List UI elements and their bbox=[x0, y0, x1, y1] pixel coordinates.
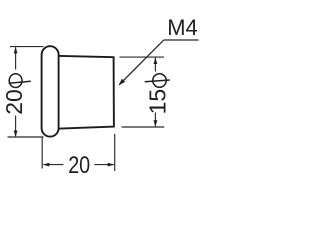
dim 20 extension line right bbox=[114, 134, 116, 171]
dim 20phi extension line top bbox=[10, 46, 44, 48]
dim 15phi text phi stem bbox=[145, 80, 170, 82]
dim 20phi text phi stem bbox=[9, 81, 31, 83]
dim 20 dimension line right segment bbox=[95, 164, 114, 166]
dim 15phi dimension line upper segment bbox=[154, 58, 156, 72]
svg-text:M4: M4 bbox=[167, 15, 198, 40]
dim 15phi dimension line lower segment bbox=[154, 113, 156, 127]
dim 15phi arrowhead up bbox=[154, 58, 158, 65]
label M4 leader underline bbox=[164, 39, 199, 41]
svg-text:20: 20 bbox=[1, 89, 27, 115]
dim 20phi arrowhead down bbox=[14, 131, 18, 138]
dim 15phi extension line bottom bbox=[122, 126, 165, 128]
dim 20phi arrowhead up bbox=[14, 47, 18, 54]
label M4 leader arrowhead bbox=[119, 79, 126, 86]
dim 15phi text phi bowl bbox=[153, 74, 166, 88]
dim 20 dimension line left segment bbox=[44, 164, 64, 166]
dim 20 arrowhead right bbox=[108, 163, 115, 167]
label M4 leader diagonal bbox=[119, 40, 163, 84]
svg-text:15: 15 bbox=[145, 89, 171, 115]
dim 20 arrowhead left bbox=[43, 163, 50, 167]
dim 20phi extension line bottom bbox=[8, 136, 44, 138]
dim 20phi text phi bowl bbox=[9, 74, 22, 88]
knob flange (capsule head) bbox=[42, 46, 59, 136]
svg-text:20: 20 bbox=[68, 152, 90, 179]
dim 15phi extension line top bbox=[120, 56, 165, 58]
dim 20phi dimension line upper segment bbox=[15, 47, 17, 69]
dim 20 extension line left bbox=[41, 137, 43, 169]
knob body (tapered shank) bbox=[50, 56, 114, 129]
dim 20phi dimension line lower segment bbox=[15, 116, 17, 137]
dim 15phi arrowhead down bbox=[154, 120, 158, 127]
